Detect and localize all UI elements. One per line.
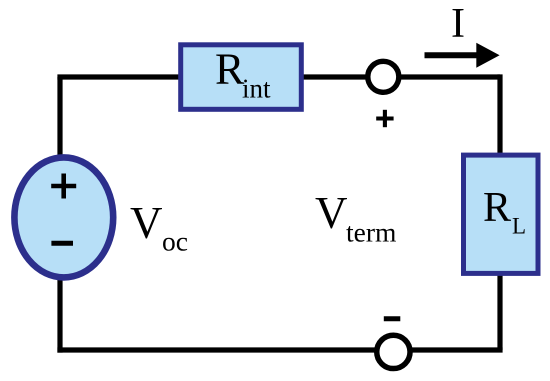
- svg-text:R: R: [483, 185, 511, 231]
- plus sign inside source: [51, 174, 76, 199]
- wire: bottom rail right (corner to bottom terminal circle): [412, 347, 503, 352]
- terminal circle (top, + terminal): [368, 61, 399, 92]
- wire: right vertical down to R_L top pin: [497, 74, 502, 154]
- wire: top-left vertical from source top to top rail: [57, 77, 62, 156]
- current arrow I: [425, 52, 480, 58]
- svg-text:V: V: [315, 188, 348, 238]
- voltage source V_oc (ellipse): [14, 157, 113, 277]
- wire: R_int right pin to terminal circle: [304, 74, 367, 79]
- terminal circle (bottom, - terminal): [377, 335, 410, 368]
- svg-text:int: int: [242, 74, 271, 104]
- svg-text:oc: oc: [162, 226, 188, 257]
- svg-text:V: V: [130, 198, 163, 248]
- wire: top rail left (to R_int left pin): [57, 74, 180, 79]
- plus sign below top terminal: [376, 110, 393, 127]
- resistor R_L (rectangle): [464, 155, 539, 273]
- svg-text:I: I: [451, 1, 465, 47]
- resistor R_int (rectangle): [181, 45, 302, 110]
- wire: R_L bottom pin down to bottom rail: [497, 274, 502, 350]
- minus sign inside source: [51, 241, 73, 246]
- wire: bottom rail left (bottom terminal circle to bottom-left corner): [57, 347, 376, 352]
- wire: terminal circle to top-right corner: [401, 74, 501, 79]
- minus sign above bottom terminal: [384, 316, 401, 321]
- svg-text:R: R: [215, 44, 245, 93]
- wire: bottom-left vertical up to source bottom: [57, 277, 62, 353]
- svg-text:term: term: [346, 216, 396, 247]
- svg-text:L: L: [512, 214, 526, 239]
